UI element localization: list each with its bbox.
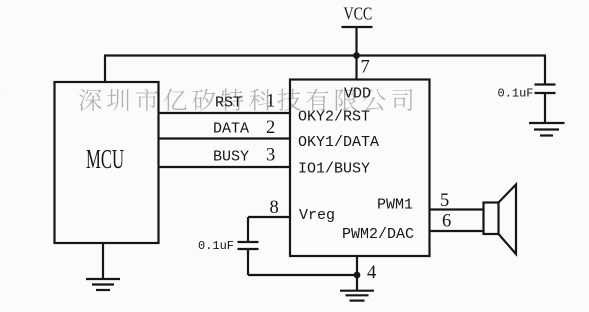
IC box U2 voice chip xyxy=(290,80,430,257)
wire: top VCC rail from MCU to right capacitor xyxy=(104,54,546,56)
ground symbol MCU: bar 2 xyxy=(92,283,114,285)
speaker LS1: cone xyxy=(499,185,517,255)
svg-text:OKY2/RST: OKY2/RST xyxy=(298,109,370,126)
wire: C1 bottom to pin 4 node xyxy=(248,274,357,276)
svg-text:7: 7 xyxy=(361,58,370,78)
wire: capacitor C2 to ground xyxy=(544,93,546,123)
capacitor C2 0.1uF: bottom plate xyxy=(535,92,556,94)
wire: pin 8 down to capacitor C1 xyxy=(247,217,249,242)
junction node: pin 4 and C1 xyxy=(354,272,361,279)
wire: IC pin 6 PWM2 to speaker xyxy=(430,230,484,232)
svg-text:RST: RST xyxy=(215,95,242,112)
svg-text:IO1/BUSY: IO1/BUSY xyxy=(298,161,370,178)
watermark company text xyxy=(0,89,413,111)
svg-text:5: 5 xyxy=(440,191,449,211)
ground symbol right: bar 1 xyxy=(529,122,565,124)
svg-text:DATA: DATA xyxy=(213,121,249,138)
power symbol VCC: stem down to rail xyxy=(355,27,357,56)
power symbol VCC: bar xyxy=(342,26,373,28)
ground symbol right: bar 2 xyxy=(534,128,559,130)
ground symbol pin4: bar 2 xyxy=(346,294,369,296)
svg-text:8: 8 xyxy=(270,198,279,218)
svg-text:1: 1 xyxy=(266,92,275,112)
capacitor C1 0.1uF: top plate xyxy=(238,241,259,243)
svg-text:VCC: VCC xyxy=(344,5,373,24)
svg-text:2: 2 xyxy=(266,118,275,138)
wire: IC pin 5 PWM1 to speaker xyxy=(430,208,484,210)
wire: RST net MCU to IC pin 1 xyxy=(159,112,291,114)
svg-text:MCU: MCU xyxy=(86,144,124,174)
wire: MCU ground stem xyxy=(102,243,104,279)
svg-text:BUSY: BUSY xyxy=(213,149,249,166)
ground symbol pin4: bar 1 xyxy=(340,290,374,292)
svg-text:0.1uF: 0.1uF xyxy=(198,239,234,253)
wire: capacitor C1 down xyxy=(247,249,249,275)
wire: DATA net MCU to IC pin 2 xyxy=(159,137,291,139)
wire: pin 7 stem from rail to IC top xyxy=(355,56,357,81)
wire: drop from rail to capacitor C2 xyxy=(544,56,546,85)
svg-text:6: 6 xyxy=(442,212,451,232)
svg-text:PWM2/DAC: PWM2/DAC xyxy=(342,226,414,243)
svg-text:4: 4 xyxy=(367,263,376,283)
wire: BUSY net MCU to IC pin 3 xyxy=(159,166,291,168)
svg-text:0.1uF: 0.1uF xyxy=(498,87,534,101)
junction node: VCC rail to pin 7 xyxy=(353,52,360,59)
capacitor C1 0.1uF: bottom plate xyxy=(238,248,259,250)
wire: drop from VCC rail to MCU top xyxy=(104,56,106,84)
wire: IC pin 4 stem to ground xyxy=(356,256,358,290)
svg-text:VDD: VDD xyxy=(344,86,371,103)
svg-text:PWM1: PWM1 xyxy=(377,197,413,214)
ground symbol right: bar 3 xyxy=(540,134,553,136)
ground symbol pin4: bar 3 xyxy=(350,300,365,302)
wire: IC pin 8 Vreg stub xyxy=(248,216,290,218)
svg-text:3: 3 xyxy=(266,146,275,166)
ground symbol MCU: bar 1 xyxy=(86,278,120,280)
capacitor C2 0.1uF: top plate xyxy=(535,83,556,85)
speaker LS1: magnet rectangle xyxy=(484,203,499,235)
svg-text:Vreg: Vreg xyxy=(299,207,335,224)
svg-text:OKY1/DATA: OKY1/DATA xyxy=(298,134,379,151)
ground symbol MCU: bar 3 xyxy=(96,289,110,291)
MCU box U1 xyxy=(55,82,159,243)
